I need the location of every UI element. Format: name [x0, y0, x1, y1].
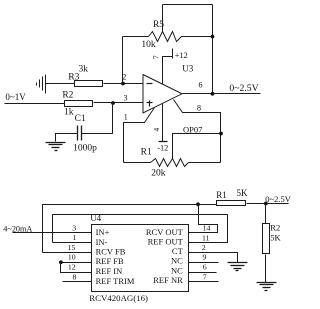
svg-text:U3: U3 — [182, 63, 193, 73]
svg-text:9: 9 — [203, 253, 207, 262]
svg-text:C1: C1 — [75, 114, 86, 124]
wire pin8 REF TRIM stub — [63, 281, 92, 283]
svg-text:3: 3 — [72, 223, 76, 232]
svg-text:3k: 3k — [79, 64, 89, 74]
svg-text:4~20mA: 4~20mA — [3, 224, 32, 233]
svg-text:NC: NC — [171, 256, 183, 266]
svg-text:8: 8 — [73, 273, 77, 282]
svg-text:7: 7 — [152, 55, 161, 59]
node R5 right junction — [211, 35, 215, 39]
op-amp U3 triangle — [143, 75, 182, 114]
op-amp minus sign — [147, 83, 153, 85]
+12 supply bar — [172, 49, 174, 59]
svg-text:10k: 10k — [141, 40, 156, 50]
wire C1 to ground — [56, 134, 78, 142]
node pin2 junction — [121, 82, 125, 86]
svg-text:REF NR: REF NR — [153, 275, 183, 285]
svg-text:11: 11 — [202, 233, 210, 242]
wire pin1 IN- — [53, 242, 92, 244]
node pin8 null junction — [219, 132, 223, 136]
svg-text:0~1V: 0~1V — [5, 92, 26, 102]
wire top loop horizontal — [163, 4, 213, 6]
svg-text:8: 8 — [197, 103, 201, 112]
svg-text:R2: R2 — [62, 90, 73, 100]
svg-text:7: 7 — [203, 273, 207, 282]
capacitor C1 — [78, 126, 82, 141]
wire R1 right — [189, 162, 221, 164]
svg-text:IN+: IN+ — [96, 227, 110, 237]
wire pin7 REF NR stub — [189, 281, 219, 283]
wire pin14 RCV OUT — [189, 205, 218, 233]
resistor R2 (5K vertical) — [263, 224, 270, 254]
svg-text:REF OUT: REF OUT — [148, 236, 184, 246]
+12 supply wire to op-amp pin7 — [163, 57, 173, 85]
node pin3 junction — [111, 101, 115, 105]
wire pin6 NC stub — [189, 272, 217, 274]
wire inner loop (IN- to REF OUT) — [53, 215, 228, 243]
wire pin12 REF IN tie — [61, 263, 92, 273]
svg-text:1000p: 1000p — [73, 144, 97, 154]
ground GND4 (R2) — [257, 283, 277, 291]
node output junction (bottom) — [264, 202, 268, 206]
svg-text:R3: R3 — [68, 73, 79, 83]
wire pin8 — [174, 100, 221, 163]
-12 supply bar — [159, 141, 168, 143]
svg-text:NC: NC — [171, 265, 183, 275]
svg-text:6: 6 — [199, 81, 203, 90]
svg-text:CT: CT — [172, 246, 184, 256]
wire OP07 null (wiper) — [173, 134, 221, 159]
resistor R3 — [75, 81, 103, 87]
svg-text:2: 2 — [122, 73, 126, 82]
wire R5 wiper up — [162, 5, 164, 32]
wire pin9 NC stub — [189, 262, 219, 264]
svg-text:2: 2 — [202, 243, 206, 252]
wire pin1 — [124, 108, 155, 163]
wire R2 to op-amp pin3 — [94, 102, 143, 104]
svg-text:IN-: IN- — [96, 237, 108, 247]
svg-text:4: 4 — [152, 128, 161, 132]
svg-text:0~2.5V: 0~2.5V — [229, 83, 258, 94]
wire R5 right to vertical — [182, 36, 213, 38]
svg-text:12: 12 — [68, 262, 76, 271]
svg-text:14: 14 — [203, 224, 211, 233]
ground GND2 (C1) — [46, 143, 66, 151]
wire R1 to output — [247, 203, 289, 205]
node output junction — [211, 92, 215, 96]
svg-text:0~2.5V: 0~2.5V — [265, 194, 291, 204]
svg-text:15: 15 — [68, 243, 76, 252]
svg-text:-12: -12 — [157, 144, 168, 153]
wire ground to R3 — [46, 83, 75, 85]
svg-text:3: 3 — [124, 94, 128, 103]
svg-text:+12: +12 — [175, 51, 188, 60]
wire outer loop (RCV FB to R1) — [43, 205, 217, 253]
svg-text:1k: 1k — [64, 107, 74, 117]
resistor R5 (pot zigzag) — [149, 32, 182, 42]
svg-text:5K: 5K — [270, 233, 281, 243]
svg-text:OP07: OP07 — [183, 125, 202, 135]
wire pin1 to R1 — [124, 162, 151, 164]
resistor R2 — [65, 101, 93, 107]
op-amp plus sign — [147, 101, 153, 107]
svg-text:1: 1 — [73, 233, 77, 242]
node RCV OUT junction — [196, 202, 200, 206]
svg-text:U4: U4 — [90, 213, 101, 223]
wire pin2 CT to ground — [189, 253, 238, 263]
svg-text:REF TRIM: REF TRIM — [96, 276, 135, 286]
ground GND3 (CT) — [228, 263, 248, 271]
resistor R1 (pot zigzag 20k) — [151, 159, 189, 167]
svg-text:5K: 5K — [237, 188, 249, 198]
svg-text:R2: R2 — [270, 223, 280, 233]
svg-text:RCV420AG(16): RCV420AG(16) — [89, 293, 148, 303]
wire R2 to ground — [265, 255, 267, 283]
wire to R5 left — [123, 36, 149, 38]
resistor R1 (5K bottom) — [217, 201, 246, 206]
wire feedback vertical from pin2 node — [122, 37, 124, 84]
wire input 0~1V — [5, 103, 65, 105]
wire input 4~20mA to pin3 IN+ — [13, 232, 92, 234]
wire pin3 node down to C1 — [82, 103, 113, 134]
svg-text:6: 6 — [203, 263, 207, 272]
wire top loop right vertical — [212, 5, 214, 94]
wire output node to R2 — [265, 204, 267, 224]
wire pin15 RCV FB — [43, 252, 92, 254]
wire pin10 REF FB — [61, 262, 92, 264]
svg-text:RCV OUT: RCV OUT — [146, 227, 184, 237]
wire R3 to op-amp pin2 — [104, 83, 143, 85]
svg-text:10: 10 — [68, 253, 76, 262]
svg-text:1: 1 — [124, 113, 128, 122]
node REF FB junction — [59, 260, 63, 264]
svg-text:R1: R1 — [141, 147, 152, 157]
wire op-amp pin4 — [162, 104, 164, 142]
svg-text:R1: R1 — [216, 190, 227, 200]
wire output pin6 — [183, 93, 261, 95]
ground GND1 (input bias, pointing left) — [37, 75, 46, 94]
svg-text:REF FB: REF FB — [96, 256, 124, 266]
svg-text:REF IN: REF IN — [96, 266, 123, 276]
IC U4 box — [92, 225, 189, 292]
svg-text:20k: 20k — [151, 168, 166, 178]
svg-text:RCV FB: RCV FB — [96, 247, 126, 257]
